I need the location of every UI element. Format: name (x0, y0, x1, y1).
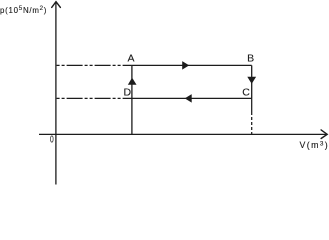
arrow A to B (183, 62, 189, 69)
dash-dot guide below C to volume axis (251, 98, 253, 134)
arrow D to A (129, 78, 136, 84)
process line D to A (left edge) (131, 65, 133, 98)
arrow B to C (248, 77, 255, 83)
svg-text:p(105N/m2): p(105N/m2) (0, 5, 47, 15)
dash-dot guide at pressure of D (57, 97, 132, 99)
svg-text:D: D (124, 86, 132, 98)
process line C to D (bottom edge) (132, 97, 252, 99)
x-axis (volume axis) (39, 130, 327, 139)
y-axis (pressure axis) (52, 2, 61, 185)
process line A to B (top edge) (132, 64, 252, 66)
svg-text:0: 0 (50, 133, 54, 145)
process line B to C (right edge) (251, 65, 253, 98)
svg-text:B: B (247, 53, 254, 65)
wire below D to volume axis (131, 98, 133, 134)
svg-text:A: A (127, 53, 134, 65)
svg-text:V(m3): V(m3) (300, 140, 329, 150)
svg-text:C: C (242, 86, 250, 98)
arrow C to D (186, 95, 192, 102)
dash-dot guide at pressure of A (57, 64, 132, 66)
